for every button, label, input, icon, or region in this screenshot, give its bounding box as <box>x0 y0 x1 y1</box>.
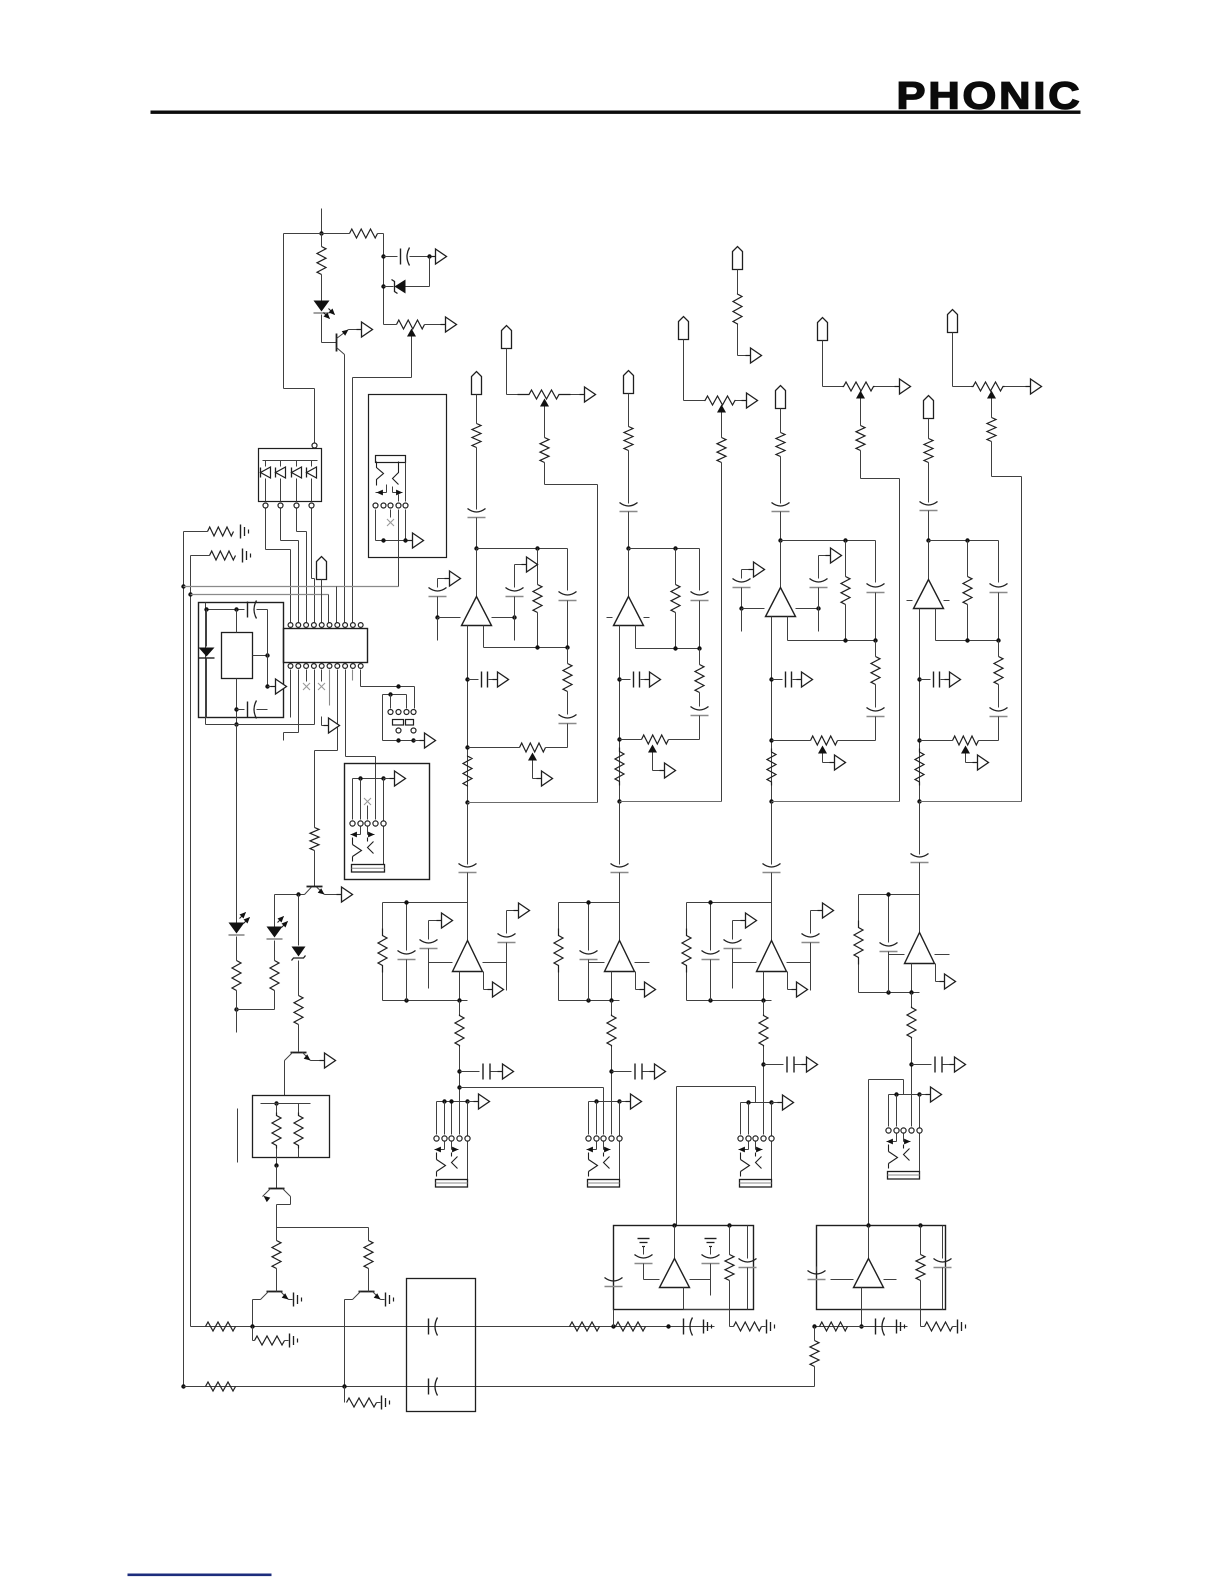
diode ZD1 zener <box>381 284 385 288</box>
capacitor Cmid3 <box>763 864 781 868</box>
wire mid3 tail <box>763 972 765 1001</box>
node N1B <box>465 800 469 804</box>
aux box 2 <box>559 902 620 904</box>
node out2a <box>617 677 621 681</box>
wire U1 p6 stub <box>329 670 331 706</box>
arrow out LINE2 <box>742 400 747 402</box>
wire MIC4 to cap <box>928 463 930 503</box>
wiper VRlow2 <box>648 745 657 753</box>
wire mid3 -in <box>733 962 757 964</box>
wiper VRline1 <box>540 399 549 407</box>
capacitor C2 <box>247 602 249 618</box>
arrow out mid4 <box>940 981 945 983</box>
capacitor Cin3a <box>741 570 743 579</box>
switch lever FMa <box>353 838 362 862</box>
wiper arrows F4 <box>896 1134 898 1142</box>
wire opamp3 +out side <box>796 608 819 610</box>
arrow out fader2 <box>620 1101 626 1103</box>
resistor Rout2 <box>615 748 624 786</box>
capacitor Cfb4 <box>998 541 1000 583</box>
resistor Rfb3 <box>843 538 847 542</box>
wire FB3 bottom rail <box>788 640 876 642</box>
arrow out In1a <box>438 578 445 580</box>
wire opamp1 +out side <box>492 617 515 619</box>
wire U1 p7 down <box>337 670 339 751</box>
pin circle FM-1 <box>350 821 355 826</box>
node out1a <box>465 677 469 681</box>
ground G3 <box>293 1293 295 1307</box>
jack J2 tip bar <box>376 456 406 463</box>
wire opamp4 tail <box>919 609 921 802</box>
resistor R16 to ground <box>344 1387 346 1403</box>
arrow out J2 <box>408 540 413 542</box>
switch S1 top rail <box>383 694 407 696</box>
node power rail <box>319 231 323 235</box>
resistor Rmix <box>727 1223 731 1227</box>
wire FBchain2 <box>695 665 704 693</box>
pin circle J2-5 <box>403 503 408 508</box>
wire LINE3 <box>822 341 824 387</box>
capacitor Cs1 <box>460 1071 480 1073</box>
op-amp U2B <box>619 903 621 941</box>
arrow out Q3 <box>320 1060 325 1062</box>
rail H2 <box>188 592 192 596</box>
capacitor Cmic4 <box>920 502 938 506</box>
arrow out LINE3 <box>895 386 900 388</box>
wiper VRlow1 <box>528 753 537 761</box>
arrow out X2 <box>746 355 751 357</box>
bus left B <box>190 556 192 1327</box>
rail H1 <box>181 584 185 588</box>
wiper VRlow4 <box>961 746 970 754</box>
wire Q2 base <box>275 894 305 896</box>
aux box 3 <box>687 902 772 904</box>
resistor Rmid3b <box>763 1001 765 1015</box>
capacitor Cmid1c <box>506 911 508 934</box>
wiper arrows F1 <box>444 1142 446 1150</box>
no-connect X4 <box>364 798 371 805</box>
wire fader2 columns <box>588 1102 590 1135</box>
ground G4 <box>385 1293 387 1307</box>
wire FB2 rail <box>629 548 700 550</box>
wire rail2 to IC pin6 <box>328 595 330 625</box>
node rail1 b <box>611 1324 615 1328</box>
pin U1 top 5 <box>319 623 324 628</box>
op-amp U3B <box>771 903 773 941</box>
pin circle F4-5 <box>917 1128 922 1133</box>
connector MIC2 bullet <box>624 371 634 394</box>
capacitor Cfc2 <box>691 707 709 711</box>
wire FB1 rail <box>477 548 568 550</box>
no-connect X1 <box>387 519 394 526</box>
rail out right <box>815 1326 908 1328</box>
arrow out LINE1 <box>580 394 585 396</box>
arrow out In3a <box>742 569 749 571</box>
wiper VRline4 <box>987 391 996 399</box>
wire mid4 tail <box>911 964 913 993</box>
wire mix input <box>866 1223 870 1227</box>
capacitor Cin3b <box>818 556 820 579</box>
pin U1 top 8 <box>343 623 348 628</box>
capacitor C6 <box>428 1379 430 1395</box>
resistor R10 <box>368 1228 370 1241</box>
wire power rail horizontal <box>284 233 350 235</box>
ground G9 <box>896 1320 898 1334</box>
wiper VRline2 <box>717 405 726 413</box>
capacitor Cfc3 <box>867 708 885 712</box>
pin U1 bottom 5 <box>319 664 324 669</box>
capacitor Cout3 <box>772 679 783 681</box>
wire LINE1 drop <box>544 463 546 485</box>
connector MIC1 bullet <box>472 372 482 395</box>
arrow out send4 <box>943 1064 950 1066</box>
arrow out In1b <box>515 564 522 566</box>
wire M1 bottom rail <box>237 709 245 711</box>
wire opamp2 tail <box>619 626 621 802</box>
resistor Rmid1b <box>459 1001 461 1015</box>
node out4b <box>917 738 921 742</box>
wire J2 bottom rail <box>376 540 408 542</box>
wire power rail stub <box>321 209 323 234</box>
capacitor box <box>407 1279 476 1412</box>
winding W1 <box>276 1104 278 1113</box>
wire MIC1 lead <box>476 395 478 424</box>
capacitor C3 <box>247 702 249 718</box>
capacitor Cm <box>643 1247 645 1255</box>
wire mid2 -in <box>589 962 605 964</box>
potentiometer VRlow1 <box>468 747 520 749</box>
wiper arrows FM <box>360 827 362 835</box>
wire MIC1 to cap <box>476 448 478 510</box>
capacitor Cin1b <box>514 565 516 588</box>
node out1b <box>465 745 469 749</box>
node N3B <box>769 799 773 803</box>
arrow out master <box>384 778 390 780</box>
pin circle F2-1 <box>586 1136 591 1141</box>
winding W2 <box>298 1104 300 1113</box>
resistor R3 to ground <box>184 531 208 533</box>
fader F2 top rail <box>589 1101 620 1103</box>
resistor R11 <box>206 1322 236 1331</box>
rail node4 <box>920 801 1022 803</box>
capacitor Cm <box>710 1247 712 1255</box>
node T1 in <box>274 1101 278 1105</box>
pin U1 top 1 <box>288 623 293 628</box>
capacitor Cfc1 <box>559 715 577 719</box>
node mid2 <box>609 1069 613 1073</box>
node rail1 c <box>666 1324 670 1328</box>
pin circle S1-1 <box>388 710 393 715</box>
arrow out VR1 <box>441 324 446 326</box>
wire S1 bottom rail <box>383 740 414 742</box>
arrow out mid1 <box>488 989 493 991</box>
wire LED junction <box>237 1009 275 1011</box>
capacitor Cfc4 <box>990 708 1008 712</box>
arrow out C1 <box>431 256 436 258</box>
wire mid1 tail <box>459 972 461 1001</box>
master fader base <box>352 865 385 873</box>
arrow out send1 <box>491 1071 498 1073</box>
pin circle J1-4 <box>309 503 314 508</box>
wire mix left drop <box>613 1310 615 1327</box>
node N4B <box>917 799 921 803</box>
arrow out mid2 <box>640 989 645 991</box>
arrow out VRlow4 <box>973 762 978 764</box>
rail bus C <box>868 1080 870 1226</box>
resistor R8 <box>298 961 300 996</box>
diode D4 <box>296 461 298 467</box>
capacitor C5 <box>683 1319 685 1335</box>
pin circle F1-3 <box>449 1136 454 1141</box>
node N2B <box>617 799 621 803</box>
pin U1 top 2 <box>296 623 301 628</box>
mix box <box>817 1226 946 1310</box>
pin U1 bottom 10 <box>358 664 363 669</box>
no-connect X2 <box>306 670 308 682</box>
fader F4 base <box>888 1172 920 1180</box>
capacitor Cfb2 <box>699 549 701 591</box>
arrow out send2 <box>643 1071 650 1073</box>
potentiometer VRlow3 <box>772 740 811 742</box>
rail node2 <box>620 801 722 803</box>
pin circle F3-2 <box>746 1136 751 1141</box>
wire mid3 out step <box>787 972 789 990</box>
pin circle J2-1 <box>373 503 378 508</box>
resistor Rline1 <box>540 438 549 463</box>
capacitor Cm left <box>816 1267 818 1271</box>
wire ladder 1 <box>265 509 267 550</box>
wire LED to Q1 base <box>321 315 323 343</box>
pin circle FM-5 <box>381 821 386 826</box>
master fader rail <box>353 778 384 780</box>
pin U1 bottom 2 <box>296 664 301 669</box>
pin U1 top 9 <box>351 623 356 628</box>
wire ladder 3 <box>296 509 298 532</box>
wire mid4 out step <box>935 964 937 982</box>
capacitor Cml edge <box>605 1278 623 1282</box>
wire opamp3 feed <box>780 541 782 588</box>
wiper arrows F3 <box>748 1142 750 1150</box>
resistor R14 <box>616 1322 646 1331</box>
fader F3 base <box>740 1180 772 1188</box>
resistor R17 <box>734 1322 762 1331</box>
resistor R1 <box>350 229 378 238</box>
connector LINE1 bullet <box>502 326 512 349</box>
arrow out LINE4 <box>1026 386 1031 388</box>
resistor Rmid2b <box>611 1001 613 1015</box>
pin circle J2-3 <box>388 503 393 508</box>
capacitor Cmic1 <box>468 509 486 513</box>
wire mix +side <box>690 1279 711 1281</box>
rail bus B <box>677 1086 756 1088</box>
module box M1 <box>199 603 284 718</box>
bus left A <box>183 532 185 1387</box>
contact arrows J2 <box>386 485 388 493</box>
switch S1 bodies <box>393 720 404 726</box>
wire mid2 out step <box>635 972 637 990</box>
node mid3 <box>761 1062 765 1066</box>
no-connect X3 <box>321 670 323 682</box>
wire mid3 feed <box>771 802 773 865</box>
op-amp U3A <box>766 588 796 617</box>
wire M1 rect bottom <box>236 679 238 725</box>
wire mid1 +side <box>483 962 507 964</box>
wire VR1 wiper to IC pin9 <box>411 337 413 378</box>
wire M1 rect top <box>236 610 238 633</box>
pin U1 bottom 4 <box>312 664 317 669</box>
diode D3 <box>280 461 282 467</box>
resistor R6 <box>274 941 276 961</box>
wire fader4 columns <box>888 1095 890 1127</box>
LED D1 <box>321 275 323 301</box>
resistor Rfb1 <box>535 546 539 550</box>
regulator block M1a <box>222 633 253 679</box>
capacitor Cout1 <box>468 679 479 681</box>
rail node3 <box>772 801 900 803</box>
wire opamp4 out step <box>935 609 937 641</box>
pin circle F3-5 <box>769 1136 774 1141</box>
wire MIC3 to cap <box>780 457 782 504</box>
wire opamp3 out step <box>787 617 789 641</box>
arrow out fader1 <box>468 1101 474 1103</box>
arrow out fader3 <box>772 1102 778 1104</box>
wire mix right tail <box>861 1310 863 1327</box>
transistor Q3 <box>291 1052 307 1054</box>
pin U1 top 10 <box>358 623 363 628</box>
pin circle F2-4 <box>609 1136 614 1141</box>
pin circle J2-4 <box>396 503 401 508</box>
switch lever F1a <box>437 1153 446 1177</box>
pin circle F3-4 <box>761 1136 766 1141</box>
extra bullet CH2 <box>733 247 743 270</box>
pin circle F2-5 <box>617 1136 622 1141</box>
rail bottom 1 <box>191 1326 715 1328</box>
pin circle F4-3 <box>901 1128 906 1133</box>
wire J2 sleeve down <box>398 541 400 587</box>
wire Q1 collector to IC pin8 <box>344 355 346 625</box>
wire U1 p8 down <box>345 670 347 757</box>
connector P1 bullet <box>317 557 327 580</box>
mix box <box>614 1226 754 1310</box>
header rule <box>151 111 1081 114</box>
wire M1 inner left <box>205 603 207 725</box>
potentiometer VRlow4 <box>920 740 953 742</box>
wire U1 p1 down <box>290 670 292 718</box>
pin circle F4-2 <box>894 1128 899 1133</box>
wire mid4 +side <box>935 954 950 956</box>
node B1 <box>381 254 385 258</box>
wire MIC4 to node <box>928 511 930 541</box>
wire left drop to diode block <box>283 234 285 389</box>
wire opamp3 -in <box>742 608 765 610</box>
node N2A <box>626 546 630 550</box>
ground G5 <box>289 1334 291 1348</box>
pin U1 top 3 <box>304 623 309 628</box>
pin circle FM-2 <box>358 821 363 826</box>
rail bus A <box>457 1085 461 1089</box>
wire MIC2 to cap <box>628 451 630 504</box>
resistor R18 <box>820 1322 848 1331</box>
node N3A <box>778 538 782 542</box>
potentiometer VRline4 <box>972 382 1005 391</box>
fader F1 top rail <box>437 1101 468 1103</box>
rail out left <box>730 1326 734 1328</box>
arrow out mid1a <box>429 920 437 922</box>
wire FB2 bottom rail <box>636 648 700 650</box>
wire MIC2 lead <box>628 394 630 427</box>
transistor Q5 <box>267 1291 283 1293</box>
potentiometer VRline2 <box>705 396 736 405</box>
pin circle FM-3 <box>365 821 370 826</box>
wire LINE4 drop <box>991 442 993 477</box>
capacitor Cmid3b <box>732 921 734 940</box>
ground G2 <box>242 549 244 563</box>
pin circle J2-2 <box>381 503 386 508</box>
node T1 out <box>274 1163 278 1167</box>
diode D6 <box>206 610 208 647</box>
wire opamp4 +side stub <box>944 600 950 602</box>
resistor Rout1 <box>463 756 472 787</box>
LED D8 <box>274 895 276 927</box>
wire MIC1 to node <box>476 518 478 549</box>
resistor Rmid4a <box>858 895 860 921</box>
capacitor C4 <box>428 1319 430 1335</box>
ground G7 <box>381 1396 383 1410</box>
wire M1 top rail <box>207 609 245 611</box>
wire opamp3 tail <box>771 617 773 802</box>
transistor Q1 <box>336 334 338 352</box>
wire opamp4 feed <box>928 541 930 580</box>
aux box 4 <box>859 894 920 896</box>
wiper VRlow3 <box>818 746 827 754</box>
wire LED1 feed <box>236 725 238 923</box>
connector MIC4 bullet <box>924 396 934 419</box>
wire opamp1 -in <box>438 617 461 619</box>
resistor Rline4 <box>987 418 996 442</box>
op-amp U2A <box>614 597 644 626</box>
capacitor Cs2 <box>612 1071 632 1073</box>
arrow out VRlow3 <box>830 762 835 764</box>
wire MIC4 lead <box>928 419 930 439</box>
wire fader1 columns <box>436 1102 438 1135</box>
wire opamp1 feed <box>476 549 478 597</box>
connector LINE3 bullet <box>818 318 828 341</box>
wire opamp4 -in stub <box>907 600 913 602</box>
resistor R20 <box>814 1327 816 1341</box>
resistor R7 <box>310 828 319 851</box>
switch lever FMb <box>368 838 374 854</box>
pin U1 bottom 1 <box>288 664 293 669</box>
arrow out Out1 <box>489 679 493 681</box>
capacitor Cmix <box>747 1226 749 1259</box>
rail node1 <box>468 802 598 804</box>
switch SW2 lever <box>393 462 399 485</box>
wire mid2 feed <box>619 802 621 865</box>
resistor Rline3 <box>856 426 865 451</box>
switch lever F2a <box>589 1153 598 1177</box>
switch lever F3a <box>741 1153 750 1177</box>
resistor Rmid1a <box>382 903 384 929</box>
diode D5 <box>311 461 313 467</box>
switch lever F1b <box>452 1153 458 1169</box>
wire driver rail <box>277 1227 369 1229</box>
fader F1 base <box>436 1180 468 1188</box>
pin circle F3-1 <box>738 1136 743 1141</box>
diode D2 <box>265 461 267 467</box>
pin circle S1-5 <box>396 728 401 733</box>
resistor R5 <box>236 937 238 961</box>
resistor Rline2 <box>717 438 726 463</box>
